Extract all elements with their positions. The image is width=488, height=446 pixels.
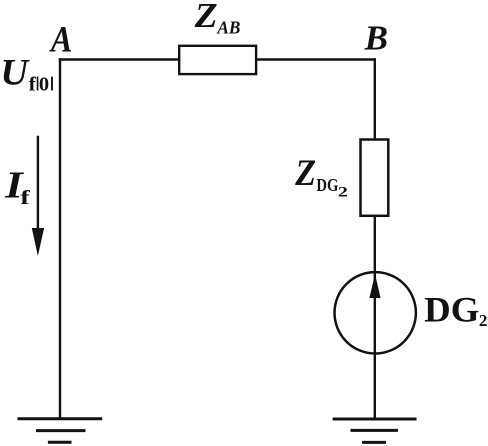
ground (right) xyxy=(333,419,417,442)
svg-text:DG: DG xyxy=(424,289,479,329)
label Z_DG2 xyxy=(294,153,348,200)
svg-text:DG: DG xyxy=(316,175,338,195)
svg-text:B: B xyxy=(364,19,388,58)
wire: right vertical from B down to ground xyxy=(374,58,376,419)
svg-text:2: 2 xyxy=(338,184,348,200)
label I_f xyxy=(4,164,30,209)
svg-text:A: A xyxy=(49,19,72,60)
svg-text:U: U xyxy=(0,51,29,92)
svg-text:Z: Z xyxy=(294,153,316,194)
label Z_AB xyxy=(194,0,241,37)
svg-text:f: f xyxy=(29,74,37,95)
svg-text:0: 0 xyxy=(39,74,49,96)
resistor Z_AB (box on top wire) xyxy=(179,46,256,74)
label U_f|0| xyxy=(0,51,53,95)
wire: left vertical from A down to ground xyxy=(59,58,61,419)
arrowhead inside source circle xyxy=(369,274,380,298)
svg-text:Z: Z xyxy=(194,0,218,35)
wire: top horizontal from node A to Z_AB xyxy=(59,58,180,61)
svg-text:f: f xyxy=(20,187,30,209)
ground (left) xyxy=(18,419,103,442)
resistor Z_DG2 (vertical box) xyxy=(361,140,389,216)
svg-text:2: 2 xyxy=(479,311,488,330)
wire: top horizontal from Z_AB to node B xyxy=(255,58,376,61)
source DG2 (circle) xyxy=(335,272,416,353)
svg-text:AB: AB xyxy=(216,17,240,37)
current arrow I_f xyxy=(32,136,44,256)
label DG2 xyxy=(424,289,487,330)
